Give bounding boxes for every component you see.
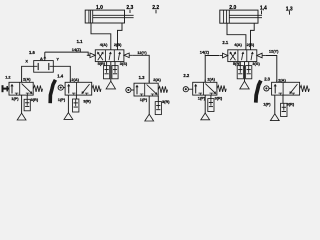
valve 2.1 5/2 body xyxy=(228,50,257,62)
svg-text:X: X xyxy=(25,58,28,63)
svg-text:2.1: 2.1 xyxy=(222,40,228,45)
valve 1.2 port 2(A) stub xyxy=(21,80,23,83)
silencer on 5(R) of 2.1 xyxy=(237,66,243,79)
label X of 1.6 xyxy=(25,58,28,63)
air supply below valve 1.4 xyxy=(64,113,73,120)
svg-text:3(R): 3(R) xyxy=(83,99,91,104)
valve 1.1 left pilot xyxy=(87,53,96,58)
valve 2.2 spring xyxy=(217,86,226,92)
svg-text:3(S): 3(S) xyxy=(120,61,128,66)
label 2.3 xyxy=(264,77,270,82)
silencer on 3(R) of 1.2 xyxy=(24,99,30,111)
svg-text:3(R): 3(R) xyxy=(215,95,223,100)
svg-text:2(B): 2(B) xyxy=(114,42,122,47)
svg-text:5(R): 5(R) xyxy=(98,61,106,66)
valve 2.2 port 3(R) stub xyxy=(210,95,212,99)
wire 12(Y) pilot of 2.1 to valve 2.3 output xyxy=(266,56,277,83)
label 1(P) of 1.4 xyxy=(58,97,66,102)
valve 1.4 roller lever xyxy=(50,80,65,103)
cylinder 1.0 right port stub xyxy=(121,23,123,25)
label 2(B) of 1.1 xyxy=(114,42,122,47)
valve 2.3 port 2(A) stub xyxy=(276,80,278,83)
cylinder 1.0 left port stub xyxy=(90,23,92,25)
svg-text:3(S): 3(S) xyxy=(252,61,260,66)
valve 1.4 port 2(A) stub xyxy=(69,80,71,83)
svg-text:2(B): 2(B) xyxy=(247,42,255,47)
position mark 1.3 label xyxy=(286,7,293,13)
valve 1.4 3/2 body xyxy=(65,82,92,95)
svg-text:3(R): 3(R) xyxy=(287,101,295,106)
svg-text:2(A): 2(A) xyxy=(278,77,286,82)
svg-text:2(A): 2(A) xyxy=(153,77,161,82)
svg-text:Y: Y xyxy=(56,57,59,62)
label 1.1 xyxy=(77,39,83,44)
valve 2.1 port 3(S) stub xyxy=(248,62,250,66)
label 2(A) of 2.2 xyxy=(207,76,215,81)
valve 1.4 spring xyxy=(92,86,101,92)
position mark 1.4 tick xyxy=(261,10,263,14)
svg-text:2.0: 2.0 xyxy=(229,5,236,11)
label 2(A) of 1.4 xyxy=(71,77,79,82)
label 3(S) of 2.1 xyxy=(252,61,260,66)
valve 1.4 port 1(P) line xyxy=(67,95,69,113)
valve 2.2 3/2 body xyxy=(193,82,217,95)
label 1.3 xyxy=(139,75,145,80)
two-pressure valve 1.6 xyxy=(34,61,54,73)
svg-text:A: A xyxy=(40,56,43,61)
valve 1.6 port A stub xyxy=(44,52,47,61)
svg-text:2(A): 2(A) xyxy=(23,76,31,81)
label 1.0 xyxy=(96,5,103,11)
label 5(R) of 2.1 xyxy=(233,61,241,66)
svg-text:1(P): 1(P) xyxy=(58,97,66,102)
svg-text:1.2: 1.2 xyxy=(5,75,11,80)
air supply below valve 1.1 xyxy=(106,81,115,89)
valve 1.3 port 1(P) line xyxy=(148,96,150,114)
valve 1.2 3/2 body xyxy=(9,82,33,95)
silencer on 3(S) of 1.1 xyxy=(112,66,118,79)
valve 1.1 port 1(P) line xyxy=(110,62,112,82)
label 14(Z) of 2.1 xyxy=(200,50,210,55)
svg-text:1,4: 1,4 xyxy=(260,6,267,12)
wire X from valve 1.2 to 1.6 xyxy=(22,66,34,82)
label 1(P) of 2.2 xyxy=(198,95,206,100)
label 12(Y) of 1.1 xyxy=(137,50,147,55)
label 1.6 xyxy=(29,50,35,55)
valve 2.1 left pilot xyxy=(219,53,228,58)
silencer on 3(R) of 2.2 xyxy=(208,99,214,112)
valve 2.3 3/2 body xyxy=(272,82,300,95)
wire 1.6 A to 14(Z) pilot of 1.1 xyxy=(45,52,90,55)
label 2(A) of 2.3 xyxy=(278,77,286,82)
air supply below valve 1.2 xyxy=(17,113,26,120)
valve 1.3 roller xyxy=(126,87,134,92)
label 14(Z) of 1.1 xyxy=(72,47,82,52)
svg-text:12(Y): 12(Y) xyxy=(137,50,147,55)
label 3(R) of 2.2 xyxy=(215,95,223,100)
svg-text:1.4: 1.4 xyxy=(57,74,63,79)
label 1.4 xyxy=(57,74,63,79)
label 2.1 xyxy=(222,40,228,45)
valve 2.3 spring xyxy=(300,86,310,92)
valve 2.2 port 1(P) line xyxy=(204,95,206,113)
label 1(P) of 1.2 xyxy=(11,96,19,101)
valve 1.1 right pilot xyxy=(124,53,133,58)
label A of 1.6 xyxy=(40,56,43,61)
cylinder 2.0 xyxy=(220,10,262,23)
label 1(P) of 1.3 xyxy=(140,97,148,102)
label 12(Y) of 2.1 xyxy=(269,49,279,54)
svg-text:2.2: 2.2 xyxy=(183,73,189,78)
svg-text:12(Y): 12(Y) xyxy=(269,49,279,54)
air supply below valve 1.3 xyxy=(145,114,154,121)
wire cyl1.0 left port to valve 1.1 port 4(A) xyxy=(91,25,111,50)
label 2.0 xyxy=(229,5,236,11)
svg-text:2(A): 2(A) xyxy=(207,76,215,81)
label 1(P) of 2.3 xyxy=(263,101,271,106)
label Y of 1.6 xyxy=(56,57,59,62)
wire valve 2.2 output to 14(Z) pilot of 2.1 xyxy=(205,56,219,83)
svg-text:14(Z): 14(Z) xyxy=(72,47,82,52)
valve 2.1 port 1(P) line xyxy=(244,62,246,82)
cylinder 1.0 xyxy=(85,10,133,23)
wire cyl2.0 right port to valve 2.1 port 2(B) xyxy=(251,25,255,50)
wire cyl2.0 left port to valve 2.1 port 4(A) xyxy=(227,25,246,50)
svg-text:4(A): 4(A) xyxy=(234,42,242,47)
air supply below valve 2.3 xyxy=(270,114,279,121)
label 3(S) of 1.1 xyxy=(120,61,128,66)
svg-text:1(P): 1(P) xyxy=(11,96,19,101)
valve 1.1 port 5(R) stub xyxy=(106,62,108,66)
valve 1.1 5/2 body xyxy=(95,50,124,62)
valve 1.3 port 2(A) stub xyxy=(148,81,150,84)
silencer on 5(R) of 1.1 xyxy=(104,66,110,79)
svg-text:1.3: 1.3 xyxy=(139,75,145,80)
air supply below valve 2.1 xyxy=(240,81,249,89)
wire 12(Y) pilot of 1.1 to valve 1.3 output xyxy=(133,55,149,82)
svg-text:2.3: 2.3 xyxy=(264,77,270,82)
svg-text:1.1: 1.1 xyxy=(77,39,83,44)
wire Y from valve 1.4 to 1.6 xyxy=(53,66,70,82)
valve 2.3 roller lever xyxy=(256,81,272,103)
valve 2.2 roller xyxy=(183,87,193,92)
valve 1.3 spring xyxy=(158,86,167,92)
svg-text:1.0: 1.0 xyxy=(96,5,103,11)
cylinder 2.0 left port stub xyxy=(226,23,228,24)
label 2(A) of 1.3 xyxy=(153,77,161,82)
position mark 2.2 tick xyxy=(155,10,157,14)
label 5(R) of 1.1 xyxy=(98,61,106,66)
svg-text:1(P): 1(P) xyxy=(140,97,148,102)
svg-text:1(P): 1(P) xyxy=(263,101,271,106)
label 3(R) of 1.3 xyxy=(162,99,170,104)
label 2(A) of 1.2 xyxy=(23,76,31,81)
label 4(A) of 1.1 xyxy=(100,42,108,47)
silencer on 3(R) of 1.3 xyxy=(155,102,161,115)
valve 2.3 port 1(P) line xyxy=(274,95,276,114)
valve 1.2 port 3(R) stub xyxy=(26,95,28,99)
label 3(R) of 1.4 xyxy=(83,99,91,104)
silencer on 3(R) of 2.3 xyxy=(281,103,287,116)
label 2(B) of 2.1 xyxy=(247,42,255,47)
position mark 1.4 label xyxy=(260,6,267,12)
valve 2.1 right pilot xyxy=(257,53,266,58)
svg-text:14(Z): 14(Z) xyxy=(200,50,210,55)
silencer on 3(S) of 2.1 xyxy=(246,66,252,79)
valve 1.2 spring xyxy=(33,86,42,92)
label 1.2 xyxy=(5,75,11,80)
valve 1.2 port 1(P) line xyxy=(21,95,23,113)
position mark 2.3 label xyxy=(126,5,133,11)
valve 1.2 push button actuator xyxy=(3,85,10,92)
position mark 2.3 tick xyxy=(129,10,131,13)
valve 2.2 port 2(A) stub xyxy=(204,80,206,83)
svg-text:4(A): 4(A) xyxy=(100,42,108,47)
label 3(R) of 2.3 xyxy=(287,101,295,106)
silencer on 3(R) of 1.4 xyxy=(73,99,79,112)
cylinder 2.0 right port stub xyxy=(253,23,255,24)
valve 1.3 3/2 body xyxy=(134,83,158,96)
svg-text:1(P): 1(P) xyxy=(198,95,206,100)
valve 1.1 port 3(S) stub xyxy=(114,62,116,66)
svg-text:3(R): 3(R) xyxy=(31,97,39,102)
valve 2.1 port 5(R) stub xyxy=(239,62,241,66)
svg-text:3(R): 3(R) xyxy=(162,99,170,104)
valve 1.4 port 3(R) stub xyxy=(75,95,77,99)
valve 2.3 port 3(R) stub xyxy=(282,95,284,103)
air supply below valve 2.2 xyxy=(201,113,210,120)
svg-text:2(A): 2(A) xyxy=(71,77,79,82)
position mark 1.3 tick xyxy=(289,11,291,15)
svg-text:1.6: 1.6 xyxy=(29,50,35,55)
wire cyl1.0 right port to valve 1.1 port 2(B) xyxy=(118,25,123,50)
label 2.2 xyxy=(183,73,189,78)
position mark 2.2 label xyxy=(152,5,159,11)
label 4(A) of 2.1 xyxy=(234,42,242,47)
valve 1.3 port 3(R) stub xyxy=(157,96,159,102)
label 3(R) of 1.2 xyxy=(31,97,39,102)
